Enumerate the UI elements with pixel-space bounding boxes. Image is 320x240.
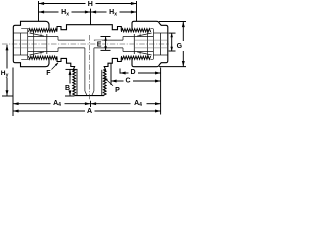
svg-text:D: D	[130, 69, 135, 76]
svg-text:A4: A4	[53, 100, 61, 108]
svg-text:Hx: Hx	[109, 9, 117, 17]
svg-text:E: E	[97, 41, 102, 48]
svg-text:G: G	[177, 43, 183, 50]
svg-text:Hy: Hy	[1, 70, 9, 78]
svg-text:C: C	[125, 77, 130, 84]
svg-text:P: P	[115, 87, 120, 94]
svg-text:B: B	[65, 85, 70, 92]
svg-text:A: A	[87, 108, 92, 115]
svg-text:F: F	[46, 70, 51, 77]
svg-text:A4: A4	[134, 100, 142, 108]
svg-text:Hx: Hx	[61, 9, 69, 17]
svg-text:H: H	[88, 1, 93, 8]
